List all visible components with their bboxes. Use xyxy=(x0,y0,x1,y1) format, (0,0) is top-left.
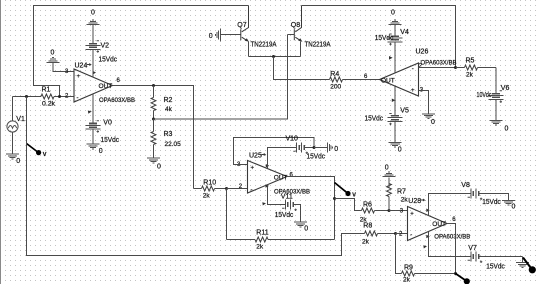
svg-text:R9: R9 xyxy=(404,265,413,272)
svg-text:4k: 4k xyxy=(165,106,173,113)
wire junction to U28 pin3 xyxy=(389,210,408,212)
wire node to U28 pin2 xyxy=(396,233,408,235)
svg-text:+: + xyxy=(410,212,414,218)
svg-text:0: 0 xyxy=(91,10,95,17)
wire U26 pin2 to junction xyxy=(419,67,456,69)
wire U25 pin5 to V11 xyxy=(268,187,286,205)
svg-text:2k: 2k xyxy=(466,72,474,79)
svg-text:+: + xyxy=(251,166,255,172)
node R1 left xyxy=(25,95,28,98)
ground at U24 pin3 xyxy=(47,50,75,72)
dc source V7 xyxy=(468,245,523,271)
svg-text:Q8: Q8 xyxy=(291,22,300,29)
svg-text:0: 0 xyxy=(385,165,389,172)
svg-text:R7: R7 xyxy=(397,189,406,196)
voltage probe on input node xyxy=(27,144,47,159)
svg-text:R3: R3 xyxy=(164,131,173,138)
ground at Q7 base xyxy=(209,29,221,42)
node pin2/R5 junction xyxy=(454,66,457,69)
wire bottom rail from input node to R8 xyxy=(27,97,365,256)
voltage probe on U25 output xyxy=(335,183,357,199)
svg-text:2k: 2k xyxy=(401,197,409,204)
ground above V4 xyxy=(389,10,402,25)
wire U28 pin7 to V8 xyxy=(429,194,471,216)
op-amp U24 xyxy=(65,63,135,114)
svg-text:V: V xyxy=(43,152,47,158)
dc source V2 xyxy=(86,25,118,78)
svg-text:-: - xyxy=(251,188,253,194)
svg-text:15Vdc: 15Vdc xyxy=(275,212,294,219)
window border xyxy=(0,0,2,284)
svg-text:15Vdc: 15Vdc xyxy=(307,154,326,161)
resistor R3 xyxy=(151,119,181,158)
svg-text:0: 0 xyxy=(16,158,20,165)
dc source V8 xyxy=(461,182,508,206)
ground at V7 return xyxy=(516,257,529,268)
svg-text:TN2219A: TN2219A xyxy=(305,42,331,49)
svg-text:U26: U26 xyxy=(416,49,429,56)
wire V1 to R1 xyxy=(13,96,42,98)
svg-text:U25: U25 xyxy=(249,153,262,160)
svg-text:200: 200 xyxy=(330,84,341,91)
svg-text:R2: R2 xyxy=(164,97,173,104)
svg-text:15Vdc: 15Vdc xyxy=(375,35,394,42)
svg-text:V5: V5 xyxy=(400,108,409,115)
resistor R5 xyxy=(456,58,497,79)
svg-text:0.2k: 0.2k xyxy=(42,101,56,108)
svg-text:V11: V11 xyxy=(281,194,293,201)
ground right of V10 xyxy=(314,143,338,154)
node emitter rail / R4 branch xyxy=(272,55,275,58)
transistor Q7 xyxy=(220,6,276,57)
svg-text:15Vdc: 15Vdc xyxy=(101,137,120,144)
svg-text:0: 0 xyxy=(99,148,103,155)
op-amp U26 xyxy=(364,49,457,103)
svg-text:0: 0 xyxy=(334,146,338,153)
svg-text:V10: V10 xyxy=(286,136,299,143)
wire emitter node down to R4 xyxy=(274,57,330,80)
corner arrow marker xyxy=(423,245,427,248)
op-amp U28 xyxy=(399,198,470,241)
svg-text:Q7: Q7 xyxy=(237,22,246,29)
svg-text:OUT: OUT xyxy=(99,83,113,90)
ground above V2 xyxy=(87,10,100,25)
transistor Q8 xyxy=(288,6,331,57)
svg-text:2k: 2k xyxy=(403,277,411,284)
svg-text:OPA603X/BB: OPA603X/BB xyxy=(99,97,135,104)
svg-text:-: - xyxy=(410,233,412,239)
wire R2/R3 node to Q8 base xyxy=(154,35,288,120)
svg-text:0: 0 xyxy=(431,119,435,126)
svg-text:V4: V4 xyxy=(400,29,409,36)
wire U28 pin4 to V7 xyxy=(429,232,471,257)
svg-text:2k: 2k xyxy=(256,244,264,251)
svg-text:0: 0 xyxy=(505,126,509,133)
svg-text:V7: V7 xyxy=(468,245,477,252)
wire U25 pin7 to V10 xyxy=(268,148,297,169)
svg-text:OUT: OUT xyxy=(274,174,288,181)
AC source V1 xyxy=(7,97,25,154)
resistor R10 xyxy=(194,180,227,200)
op-amp U25 xyxy=(237,153,310,196)
dc source V5 xyxy=(365,86,409,142)
svg-text:U28: U28 xyxy=(408,198,421,205)
wire U26 pin3 to ground xyxy=(419,91,429,114)
svg-text:R4: R4 xyxy=(330,71,339,78)
svg-text:0: 0 xyxy=(398,147,402,154)
wire emitter rail xyxy=(249,56,301,58)
resistor R4 xyxy=(330,71,380,91)
voltage probe on U28 output xyxy=(456,274,470,284)
resistor R7 xyxy=(387,177,409,210)
node R2 bottom xyxy=(152,118,155,121)
wire node to U25 pin2 xyxy=(227,188,248,190)
wire U25 output down to R11 xyxy=(287,177,335,240)
svg-text:0: 0 xyxy=(512,204,516,211)
svg-text:OUT: OUT xyxy=(381,78,395,85)
resistor R1 xyxy=(41,87,74,108)
svg-text:V2: V2 xyxy=(101,43,110,50)
wire U28 output down to R9 xyxy=(447,224,456,274)
ground under V11 xyxy=(294,222,308,233)
node output/R9 xyxy=(454,272,457,275)
svg-text:-: - xyxy=(77,96,79,102)
resistor R6 xyxy=(360,202,389,224)
svg-text:+: + xyxy=(77,74,81,80)
svg-text:TN2219A: TN2219A xyxy=(251,42,277,49)
wire feedback rail from R1 node up-left-across top to Q7 collector xyxy=(34,6,249,97)
ground under V1 xyxy=(6,154,20,165)
corner arrow marker xyxy=(262,202,266,205)
wire node down to R9 xyxy=(396,234,402,274)
resistor R2 xyxy=(151,86,173,120)
node R2 top xyxy=(152,84,155,87)
node R10/R11/pin2 xyxy=(225,187,228,190)
svg-text:R5: R5 xyxy=(466,58,475,65)
node V10/ground junction xyxy=(313,146,316,149)
svg-text:R8: R8 xyxy=(363,223,372,230)
ground under V8 xyxy=(502,200,516,210)
svg-text:0: 0 xyxy=(391,10,395,17)
svg-text:V6: V6 xyxy=(501,85,510,92)
svg-text:15Vdc: 15Vdc xyxy=(365,116,384,123)
dc source V10 xyxy=(286,136,326,161)
voltage probe at V7 ground xyxy=(523,258,536,274)
svg-text:-: - xyxy=(412,67,414,73)
svg-text:V: V xyxy=(352,193,356,199)
svg-text:0: 0 xyxy=(209,33,213,40)
svg-text:R11: R11 xyxy=(256,230,268,237)
svg-text:15Vdc: 15Vdc xyxy=(486,264,505,271)
dc source V0 xyxy=(86,94,120,144)
svg-text:+: + xyxy=(411,88,415,94)
svg-text:2k: 2k xyxy=(203,193,211,200)
svg-text:15Vdc: 15Vdc xyxy=(482,199,501,206)
svg-text:U24: U24 xyxy=(75,63,88,70)
wire U24 output to R10 corner xyxy=(113,86,194,189)
wire R11 up to R10 node xyxy=(226,189,228,240)
ground under V0 xyxy=(87,144,103,155)
svg-text:OUT: OUT xyxy=(432,221,446,228)
resistor R9 xyxy=(402,265,456,284)
svg-text:R1: R1 xyxy=(42,87,51,94)
svg-text:2k: 2k xyxy=(362,239,370,246)
ground under V6 xyxy=(490,120,509,132)
svg-text:15Vdc: 15Vdc xyxy=(99,57,118,64)
wire U25 pin3 ground loop xyxy=(234,138,315,165)
svg-text:OPA603X/BB: OPA603X/BB xyxy=(434,234,470,241)
ground above R7 xyxy=(383,165,396,177)
resistor R11 xyxy=(227,230,335,251)
svg-text:V8: V8 xyxy=(461,182,470,189)
svg-text:0: 0 xyxy=(304,226,308,233)
dc source V4 xyxy=(375,25,409,73)
node R6/R7/pin3 junction xyxy=(388,209,391,212)
svg-text:R6: R6 xyxy=(363,202,372,209)
dc source V11 xyxy=(275,194,301,222)
svg-text:0: 0 xyxy=(51,50,55,57)
svg-text:OPA603X/BB: OPA603X/BB xyxy=(421,59,457,66)
svg-text:0: 0 xyxy=(157,164,161,171)
node R1 right xyxy=(58,95,61,98)
svg-text:V1: V1 xyxy=(16,116,25,123)
svg-text:10Vdc: 10Vdc xyxy=(477,92,492,99)
node U25 out / R6 branch xyxy=(333,197,336,200)
svg-text:22.05: 22.05 xyxy=(165,141,182,148)
ground under V5 xyxy=(389,142,402,153)
svg-text:R10: R10 xyxy=(203,180,216,187)
node R8/pin2/R9 xyxy=(394,232,397,235)
svg-text:V0: V0 xyxy=(103,120,112,127)
wire top rail from Q8 collector to U26 pin2 junction xyxy=(302,6,456,68)
wire R6 jog xyxy=(335,199,362,211)
ground at U26 pin3 xyxy=(422,114,435,126)
dc source V6 xyxy=(477,68,510,121)
ground under R3 xyxy=(147,158,161,171)
resistor R8 xyxy=(362,223,396,246)
